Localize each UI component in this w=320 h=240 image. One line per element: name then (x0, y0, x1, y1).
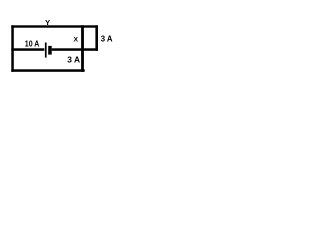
wire bottom horizontal (11, 69, 84, 72)
wire left vertical (11, 25, 14, 72)
component X box left edge / divider vertical wire (81, 25, 84, 72)
wire right vertical (95, 25, 98, 51)
label 3 A bottom branch (67, 55, 80, 65)
wire top horizontal (11, 25, 98, 27)
wire middle horizontal right of battery (52, 48, 98, 51)
battery cell short thick plate (48, 46, 52, 55)
svg-text:X: X (74, 37, 79, 44)
svg-text:3 A: 3 A (67, 55, 80, 65)
label 10 A current (25, 39, 40, 48)
wire middle horizontal left of battery (11, 48, 44, 51)
label 3 A right branch (101, 34, 113, 43)
battery cell long plate (45, 43, 47, 58)
svg-text:10 A: 10 A (25, 39, 40, 48)
node Y label (45, 18, 50, 27)
svg-text:3 A: 3 A (101, 34, 113, 43)
component X label (74, 37, 79, 44)
